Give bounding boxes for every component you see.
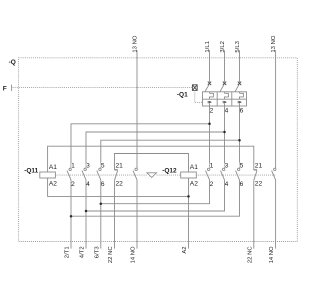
svg-text:F: F — [3, 85, 7, 92]
svg-text:2: 2 — [210, 181, 214, 188]
svg-text:-Q11: -Q11 — [24, 168, 38, 175]
svg-text:-Q: -Q — [9, 59, 16, 66]
svg-text:2: 2 — [71, 181, 75, 188]
svg-text:13 NO: 13 NO — [271, 35, 277, 52]
svg-text:A1: A1 — [49, 164, 57, 171]
svg-text:5/L3: 5/L3 — [235, 40, 241, 52]
svg-text:A2: A2 — [49, 181, 57, 188]
svg-text:6: 6 — [240, 107, 244, 114]
svg-text:14 NO: 14 NO — [131, 246, 137, 263]
svg-text:6/T3: 6/T3 — [94, 246, 100, 259]
svg-text:1: 1 — [210, 163, 214, 170]
svg-text:3: 3 — [86, 163, 90, 170]
svg-text:3: 3 — [225, 163, 229, 170]
svg-text:5: 5 — [101, 163, 105, 170]
svg-text:22 NC: 22 NC — [108, 246, 114, 263]
svg-text:4: 4 — [225, 107, 229, 114]
svg-text:22 NC: 22 NC — [247, 246, 253, 263]
svg-text:6: 6 — [101, 181, 105, 188]
svg-text:21: 21 — [255, 163, 263, 170]
svg-text:A2: A2 — [190, 181, 198, 188]
svg-text:1: 1 — [71, 163, 75, 170]
svg-text:2: 2 — [210, 107, 214, 114]
svg-text:5: 5 — [240, 163, 244, 170]
svg-text:3/L2: 3/L2 — [220, 41, 226, 52]
svg-text:4: 4 — [225, 181, 229, 188]
svg-text:A1: A1 — [190, 164, 198, 171]
svg-text:22: 22 — [116, 181, 124, 188]
svg-text:22: 22 — [255, 181, 263, 188]
svg-text:2/T1: 2/T1 — [65, 246, 71, 258]
svg-text:6: 6 — [240, 181, 244, 188]
svg-text:1/L1: 1/L1 — [205, 41, 211, 52]
svg-text:13 NO: 13 NO — [132, 35, 138, 52]
svg-text:-Q1: -Q1 — [177, 92, 188, 99]
svg-text:4/T2: 4/T2 — [80, 246, 86, 258]
svg-text:14 NO: 14 NO — [269, 246, 275, 263]
svg-text:A2: A2 — [182, 246, 188, 253]
svg-text:-Q12: -Q12 — [162, 168, 177, 175]
svg-text:4: 4 — [86, 181, 90, 188]
svg-text:21: 21 — [116, 163, 124, 170]
